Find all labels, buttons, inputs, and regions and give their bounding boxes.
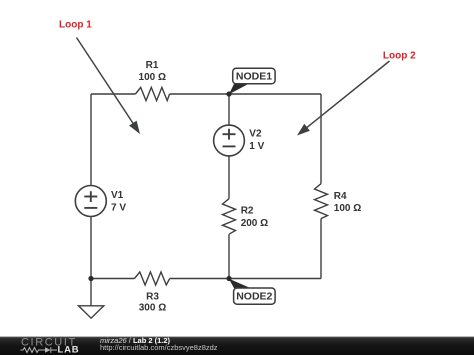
wire top-right horizontal (170, 93, 321, 95)
annotation arrow Loop 2 (297, 61, 390, 136)
svg-text:R4: R4 (334, 191, 347, 202)
footer bar (0, 337, 474, 355)
annotation arrow Loop 1 (77, 38, 141, 135)
wire bottom-right horizontal (170, 278, 321, 280)
wire left vertical lower (90, 217, 92, 279)
junction node at top wire / V2 branch (226, 91, 231, 96)
wire middle vertical mid (228, 156, 230, 199)
footer logo resistor squiggle and diode (21, 347, 58, 353)
wire middle vertical upper (228, 94, 230, 125)
svg-text:7 V: 7 V (111, 202, 126, 213)
svg-text:300 Ω: 300 Ω (139, 303, 166, 314)
node NODE1 box (233, 68, 275, 84)
svg-text:R2: R2 (241, 206, 254, 217)
junction node at bottom wire / R2 branch (226, 276, 231, 281)
svg-text:R1: R1 (146, 60, 159, 71)
svg-text:http://circuitlab.com/czbsvye8: http://circuitlab.com/czbsvye8z8zdz (100, 343, 218, 352)
resistor R4 (315, 184, 328, 219)
svg-text:LAB: LAB (58, 345, 80, 355)
resistor R1 (135, 87, 169, 100)
junction node at bottom-left / ground (88, 276, 93, 281)
voltage source V2 (214, 125, 245, 156)
node NODE2 callout pointer (229, 279, 251, 289)
node NODE2 box (234, 288, 276, 304)
ground (79, 279, 104, 319)
svg-text:100 Ω: 100 Ω (139, 72, 166, 83)
svg-text:NODE2: NODE2 (236, 291, 272, 303)
node NODE1 callout pointer (229, 84, 249, 94)
svg-text:1 V: 1 V (249, 141, 264, 152)
svg-text:NODE1: NODE1 (236, 71, 272, 83)
svg-text:Loop 2: Loop 2 (383, 51, 416, 62)
wire middle vertical lower (228, 234, 230, 278)
svg-text:Loop 1: Loop 1 (59, 19, 92, 30)
wire right vertical lower (320, 219, 322, 279)
svg-text:200 Ω: 200 Ω (241, 218, 268, 229)
svg-text:R3: R3 (146, 291, 159, 302)
wire top-left horizontal (91, 93, 135, 95)
svg-text:V2: V2 (249, 129, 262, 140)
wire right vertical upper (320, 94, 322, 184)
voltage source V1 (75, 186, 106, 217)
resistor R2 (223, 199, 236, 235)
wire bottom-left horizontal (91, 278, 135, 280)
resistor R3 (135, 272, 170, 285)
svg-text:100 Ω: 100 Ω (334, 203, 361, 214)
wire left vertical upper (90, 94, 92, 186)
svg-text:V1: V1 (111, 190, 124, 201)
